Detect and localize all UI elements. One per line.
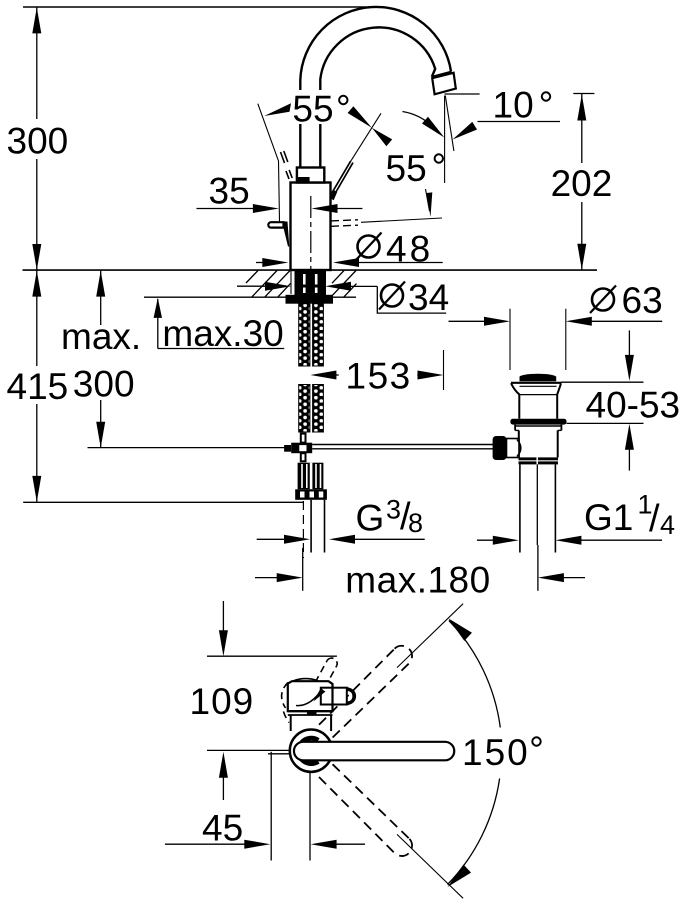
- dimension 40-53: [561, 381, 644, 383]
- collar black segment: [298, 177, 310, 182]
- body inner curve: [296, 689, 322, 706]
- svg-text:55: 55: [292, 89, 333, 130]
- spout tip tick line: [268, 753, 290, 755]
- spout outer arc: [300, 7, 451, 80]
- label diam48: [358, 236, 380, 258]
- spout inner arc: [320, 27, 435, 80]
- counter bottom line: [144, 296, 356, 298]
- svg-text:300: 300: [73, 363, 135, 404]
- 55deg arc near outlet: [403, 112, 439, 134]
- 55deg X arrows on lever axis: [348, 106, 372, 128]
- dashed spout pill (top view): [315, 658, 337, 688]
- lever hook (down position): [268, 222, 283, 227]
- body bottom band: [288, 710, 333, 712]
- top reference line (spout height): [23, 6, 375, 8]
- mounting shank black: [295, 270, 327, 295]
- mounting washer: [286, 295, 334, 304]
- svg-text:max.30: max.30: [162, 313, 283, 354]
- outlet 10deg stream line: [445, 96, 454, 152]
- spout column right edge: [319, 80, 321, 90]
- lever hook wedge: [284, 222, 290, 247]
- pop-up rod horizontal to drain: [312, 444, 493, 446]
- svg-text:G: G: [356, 498, 385, 539]
- drain flange inner lines: [520, 385, 557, 387]
- dimension diam63: [449, 320, 487, 322]
- counter hatching left: [246, 271, 291, 297]
- pop-up rod cross left block: [284, 445, 291, 452]
- svg-text:35: 35: [209, 170, 250, 211]
- left hose centerline dashed: [302, 501, 304, 558]
- lever swing extension line: [258, 104, 280, 222]
- lever axis thin line: [349, 113, 381, 163]
- svg-text:55: 55: [386, 148, 427, 189]
- dimension max.300 line: [100, 270, 102, 325]
- 153 right extension line: [443, 350, 445, 390]
- faucet body: [291, 183, 331, 271]
- 150deg arc lower: [448, 779, 500, 885]
- shank white slots: [304, 274, 316, 293]
- dashed arc left of body: [282, 683, 288, 709]
- max300 bottom extension line: [88, 447, 286, 449]
- svg-text:109: 109: [190, 681, 255, 722]
- spout column left edge: [299, 80, 301, 90]
- counter top line: [23, 269, 598, 271]
- svg-text:40-53: 40-53: [586, 385, 681, 426]
- drain inner rod line: [536, 464, 538, 545]
- svg-text:3: 3: [386, 495, 401, 525]
- dashed lever pill lower: [319, 764, 412, 856]
- faucet center reference line: [207, 749, 290, 751]
- drain body upper step: [514, 425, 516, 431]
- label diam34: [381, 285, 403, 307]
- dimension 202 top bar: [573, 93, 594, 95]
- dimension 202 line: [581, 94, 583, 163]
- 10deg leader arrow: [450, 122, 477, 143]
- drain flange sides: [511, 383, 519, 419]
- svg-text:63: 63: [622, 280, 663, 321]
- svg-text:8: 8: [408, 508, 423, 538]
- drain body: [518, 430, 520, 457]
- swivel inner thick C ring: [299, 738, 319, 763]
- svg-text:34: 34: [408, 277, 449, 318]
- dimension diam34 arrows: [237, 285, 267, 287]
- dashed lever pill upper: [319, 646, 412, 738]
- svg-text:10: 10: [493, 85, 534, 126]
- outlet bottom extension line: [445, 93, 480, 95]
- dimension 45: [165, 843, 247, 845]
- cartridge collar: [297, 168, 324, 183]
- diam63 extension lines: [509, 309, 511, 370]
- hole extension line left: [290, 271, 292, 295]
- swivel outer circle: [290, 730, 332, 772]
- dimension 109: [222, 601, 224, 632]
- svg-text:max.: max.: [61, 316, 141, 357]
- body centerline: [310, 196, 312, 270]
- dimension diam48: [256, 262, 272, 264]
- pop-up rod cross stem bottom: [301, 453, 306, 461]
- outlet vertical reference line: [444, 96, 446, 184]
- rod knob: [493, 436, 507, 460]
- body dome arc: [293, 679, 318, 681]
- 415 bottom extension line: [23, 501, 304, 503]
- pop-up rod side lines: [331, 220, 358, 221]
- swing extension line lower: [397, 834, 463, 898]
- faucet threaded tail: [298, 463, 324, 490]
- svg-text:G1: G1: [584, 497, 633, 538]
- counter hatching right: [331, 271, 357, 297]
- dimension max.180: [302, 548, 304, 591]
- top view body outline: [288, 681, 333, 711]
- label diam63: [592, 289, 614, 311]
- drain tailpipe: [519, 464, 521, 552]
- faucet tail nut: [295, 489, 327, 500]
- hose upper section: [299, 304, 310, 366]
- faucet tail pipe: [310, 500, 312, 553]
- lever pill (solid): [294, 742, 454, 761]
- pop-up rod cross block: [291, 443, 312, 454]
- svg-text:/: /: [649, 498, 660, 540]
- svg-text:150: 150: [462, 732, 530, 773]
- svg-text:48: 48: [386, 229, 433, 270]
- dimension G3/8: [257, 538, 287, 540]
- neck column: [290, 715, 292, 731]
- dimension 35: [197, 208, 263, 210]
- 55deg lower leader arrow down to rod: [426, 189, 430, 211]
- 45 right extension line: [309, 772, 311, 861]
- svg-text:max.180: max.180: [345, 560, 490, 601]
- drain collar bands: [519, 457, 559, 460]
- small lever arrow: [314, 689, 326, 702]
- rod connector: [507, 439, 520, 458]
- svg-text:202: 202: [551, 163, 613, 204]
- svg-text:153: 153: [346, 356, 412, 397]
- 10deg leader line: [478, 121, 561, 123]
- dimension 153: [310, 371, 336, 380]
- pop-up rod cross stem top: [301, 434, 306, 443]
- svg-text:45: 45: [202, 808, 243, 849]
- lever dashed position dashes: [281, 152, 285, 163]
- drain flange top: [511, 382, 561, 384]
- dimension 415 line: [36, 270, 38, 366]
- swing extension line upper: [397, 604, 463, 668]
- hole extension line right: [324, 271, 326, 295]
- svg-text:415: 415: [7, 366, 69, 407]
- dimension 300 line: [36, 7, 38, 119]
- drain o-ring: [510, 419, 566, 425]
- 150deg arc upper: [449, 621, 500, 728]
- dimension G1 1/4: [477, 539, 495, 541]
- hose lower section: [299, 385, 310, 433]
- lever handle: [329, 190, 337, 201]
- 55deg left arrow: [264, 103, 291, 116]
- svg-text:300: 300: [7, 121, 69, 162]
- svg-text:4: 4: [660, 510, 675, 540]
- diam34 leader corner: [377, 286, 446, 313]
- aerator outlet block: [432, 73, 456, 95]
- lever boss cylinder: [321, 688, 347, 705]
- drain plug cap: [519, 374, 556, 380]
- dimension max.30 leader: [157, 299, 159, 349]
- aerator joint line: [432, 72, 452, 77]
- 45 left extension line: [270, 752, 272, 861]
- spout tip reference line: [207, 655, 337, 657]
